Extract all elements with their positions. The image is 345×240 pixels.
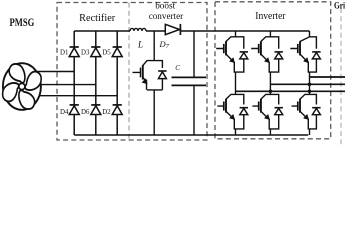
converter dashed box (Rectifier + boost converter): [57, 3, 207, 141]
svg-text:D5: D5: [102, 49, 111, 56]
wire grid phase 3 (from leg 1): [236, 90, 345, 92]
inductor L: [130, 28, 146, 49]
IGBT Q1 (upper leg 1): [216, 37, 244, 72]
junction leg3/grid2 crossing: [308, 83, 312, 87]
wire rectifier leg 2: [95, 31, 97, 135]
svg-text:D3: D3: [81, 49, 90, 56]
svg-text:Inverter: Inverter: [255, 11, 286, 22]
svg-text:D2: D2: [102, 109, 111, 116]
wire phase b (generator to leg 2): [41, 84, 96, 86]
divider between rectifier and boost converter: [128, 3, 130, 141]
wire inverter leg 2 top drop: [269, 31, 271, 37]
svg-text:C: C: [175, 64, 180, 72]
svg-text:Rectifier: Rectifier: [79, 13, 116, 24]
label boost converter: [149, 2, 184, 22]
diode D2: [102, 105, 122, 116]
wire grid phase 2 (from leg 2): [270, 83, 345, 85]
wire top DC rail: [74, 30, 309, 32]
wire phase a (generator to leg 1): [37, 71, 75, 73]
IGBT Q6 (lower leg 3): [292, 94, 317, 128]
svg-text:D6: D6: [81, 109, 90, 116]
IGBT Qb (boost switch): [133, 61, 167, 90]
svg-text:D1: D1: [60, 49, 69, 56]
wire phase c (generator to leg 3): [40, 95, 117, 97]
diode D3: [81, 47, 101, 57]
junction leg2/grid3 crossing: [269, 90, 273, 94]
svg-text:Grid: Grid: [334, 1, 345, 11]
wire grid phase 1 (from leg 3): [310, 76, 345, 78]
wire boost switch branch (top): [153, 31, 155, 61]
IGBT Q4 (lower leg 1): [217, 94, 243, 128]
grid dashed boundary: [340, 8, 342, 146]
svg-text:PMSG: PMSG: [10, 15, 35, 29]
wire inverter leg 1 top drop: [235, 31, 237, 37]
svg-text:boost: boost: [155, 2, 175, 12]
wire inverter leg 3 bottom drop: [309, 129, 311, 135]
diode D5: [102, 47, 122, 57]
diode D7: [159, 24, 181, 50]
junction leg3/grid3 crossing: [308, 90, 312, 94]
IGBT Q3 (upper leg 3): [290, 37, 316, 72]
diode D6: [81, 105, 101, 116]
wire inverter leg 1 bottom drop: [235, 129, 237, 135]
wire inverter leg 2 bottom drop: [269, 129, 271, 135]
wire boost switch branch (bottom): [153, 90, 155, 135]
wire inverter leg 2 phase column: [269, 72, 271, 94]
wire bottom DC rail: [74, 134, 308, 136]
generator PMSG (wind turbine symbol): [1, 62, 43, 111]
svg-text:D4: D4: [60, 109, 69, 116]
wire inverter leg 3 top drop: [309, 31, 311, 37]
diode D1: [60, 47, 79, 57]
diode D4: [60, 105, 79, 116]
wire rectifier leg 1: [73, 31, 75, 135]
IGBT Q2 (upper leg 2): [251, 37, 279, 72]
svg-text:converter: converter: [149, 12, 184, 22]
capacitor C: [172, 31, 207, 135]
IGBT Q5 (lower leg 2): [252, 94, 278, 128]
wire inverter leg 3 phase column: [309, 72, 311, 94]
svg-text:L: L: [137, 39, 143, 49]
wire rectifier leg 3: [116, 31, 118, 135]
wire inverter leg 1 phase column: [235, 72, 237, 94]
inverter dashed box: [215, 2, 331, 139]
